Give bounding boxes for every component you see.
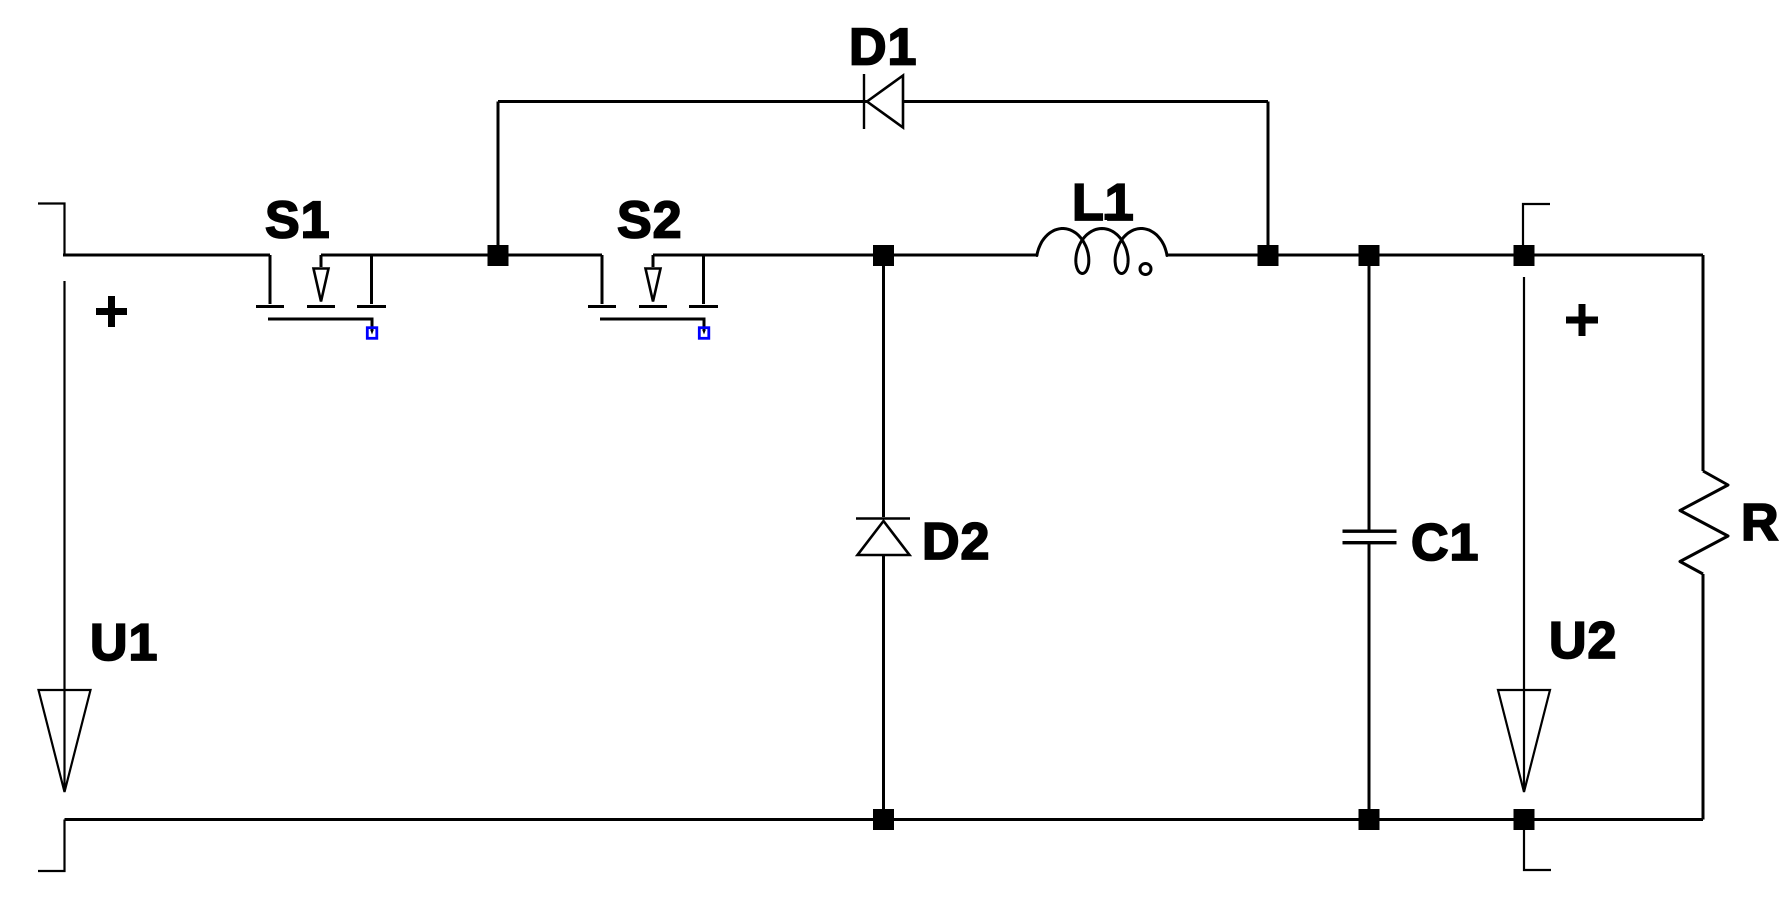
wire bottom rail [65, 818, 1704, 821]
junction node H output minus [1514, 809, 1535, 830]
junction node D C1 top [1359, 245, 1380, 266]
port P4 bottom-right terminal [1524, 820, 1551, 871]
svg-text:S1: S1 [265, 192, 331, 250]
inductor L1 dot marker [1140, 264, 1151, 275]
svg-text:R: R [1741, 494, 1780, 552]
wire down to node C [1267, 102, 1270, 256]
port P2 top-right output terminal [1523, 204, 1550, 255]
diode D2 [856, 519, 910, 556]
wire R to bottom rail [1702, 574, 1705, 820]
junction node F D2 bottom [873, 809, 894, 830]
wire D1 cathode line [903, 100, 1268, 103]
wire node C to node D [1268, 254, 1369, 257]
wire right top drop [1702, 255, 1705, 471]
voltage arrow U1 [39, 281, 91, 792]
wire C1 to bottom rail [1368, 544, 1371, 820]
svg-text:S2: S2 [617, 192, 683, 250]
diode D1 [864, 74, 903, 129]
wire node A to S2 [498, 254, 602, 257]
junction node B switch node [873, 245, 894, 266]
wire D1 anode line [498, 100, 867, 103]
capacitor C1 [1343, 530, 1397, 545]
junction node C D1 cathode tap [1258, 245, 1279, 266]
gate terminal square S1 [367, 328, 377, 339]
wire L1 to node C [1166, 254, 1268, 257]
port P1 top-left input terminal [38, 204, 65, 256]
svg-text:L1: L1 [1072, 174, 1135, 232]
resistor R [1680, 471, 1728, 574]
wire node B to L1 [884, 254, 1039, 257]
wire node E to R [1524, 254, 1703, 257]
wire node D to node E [1369, 254, 1524, 257]
svg-text:D2: D2 [922, 513, 990, 571]
wire input rail left [63, 254, 270, 257]
svg-text:U1: U1 [90, 614, 158, 672]
wire D2 to bottom rail [882, 555, 885, 820]
label + (U1 plus) [96, 296, 127, 327]
label + (U2 plus) [1566, 304, 1598, 336]
wire S1 to node A [321, 254, 498, 257]
port P3 bottom-left terminal [38, 820, 65, 872]
wire node B down to D2 [882, 255, 885, 517]
svg-text:D1: D1 [849, 19, 917, 77]
junction node A [488, 245, 509, 266]
serif feet for '1' glyphs [133, 58, 1477, 660]
voltage arrow U2 [1498, 277, 1550, 792]
junction node G C1 bottom [1359, 809, 1380, 830]
svg-text:U2: U2 [1549, 612, 1617, 670]
inductor L1 coil [1037, 229, 1167, 274]
wire node A up to D1 [497, 102, 500, 256]
junction node E output plus [1514, 245, 1535, 266]
wire S2 to node B [653, 254, 884, 257]
transistor S2 [588, 255, 718, 331]
gate terminal square S2 [699, 328, 709, 339]
svg-text:C1: C1 [1411, 514, 1479, 572]
wire node D down to C1 [1368, 255, 1371, 530]
transistor S1 [256, 255, 386, 331]
